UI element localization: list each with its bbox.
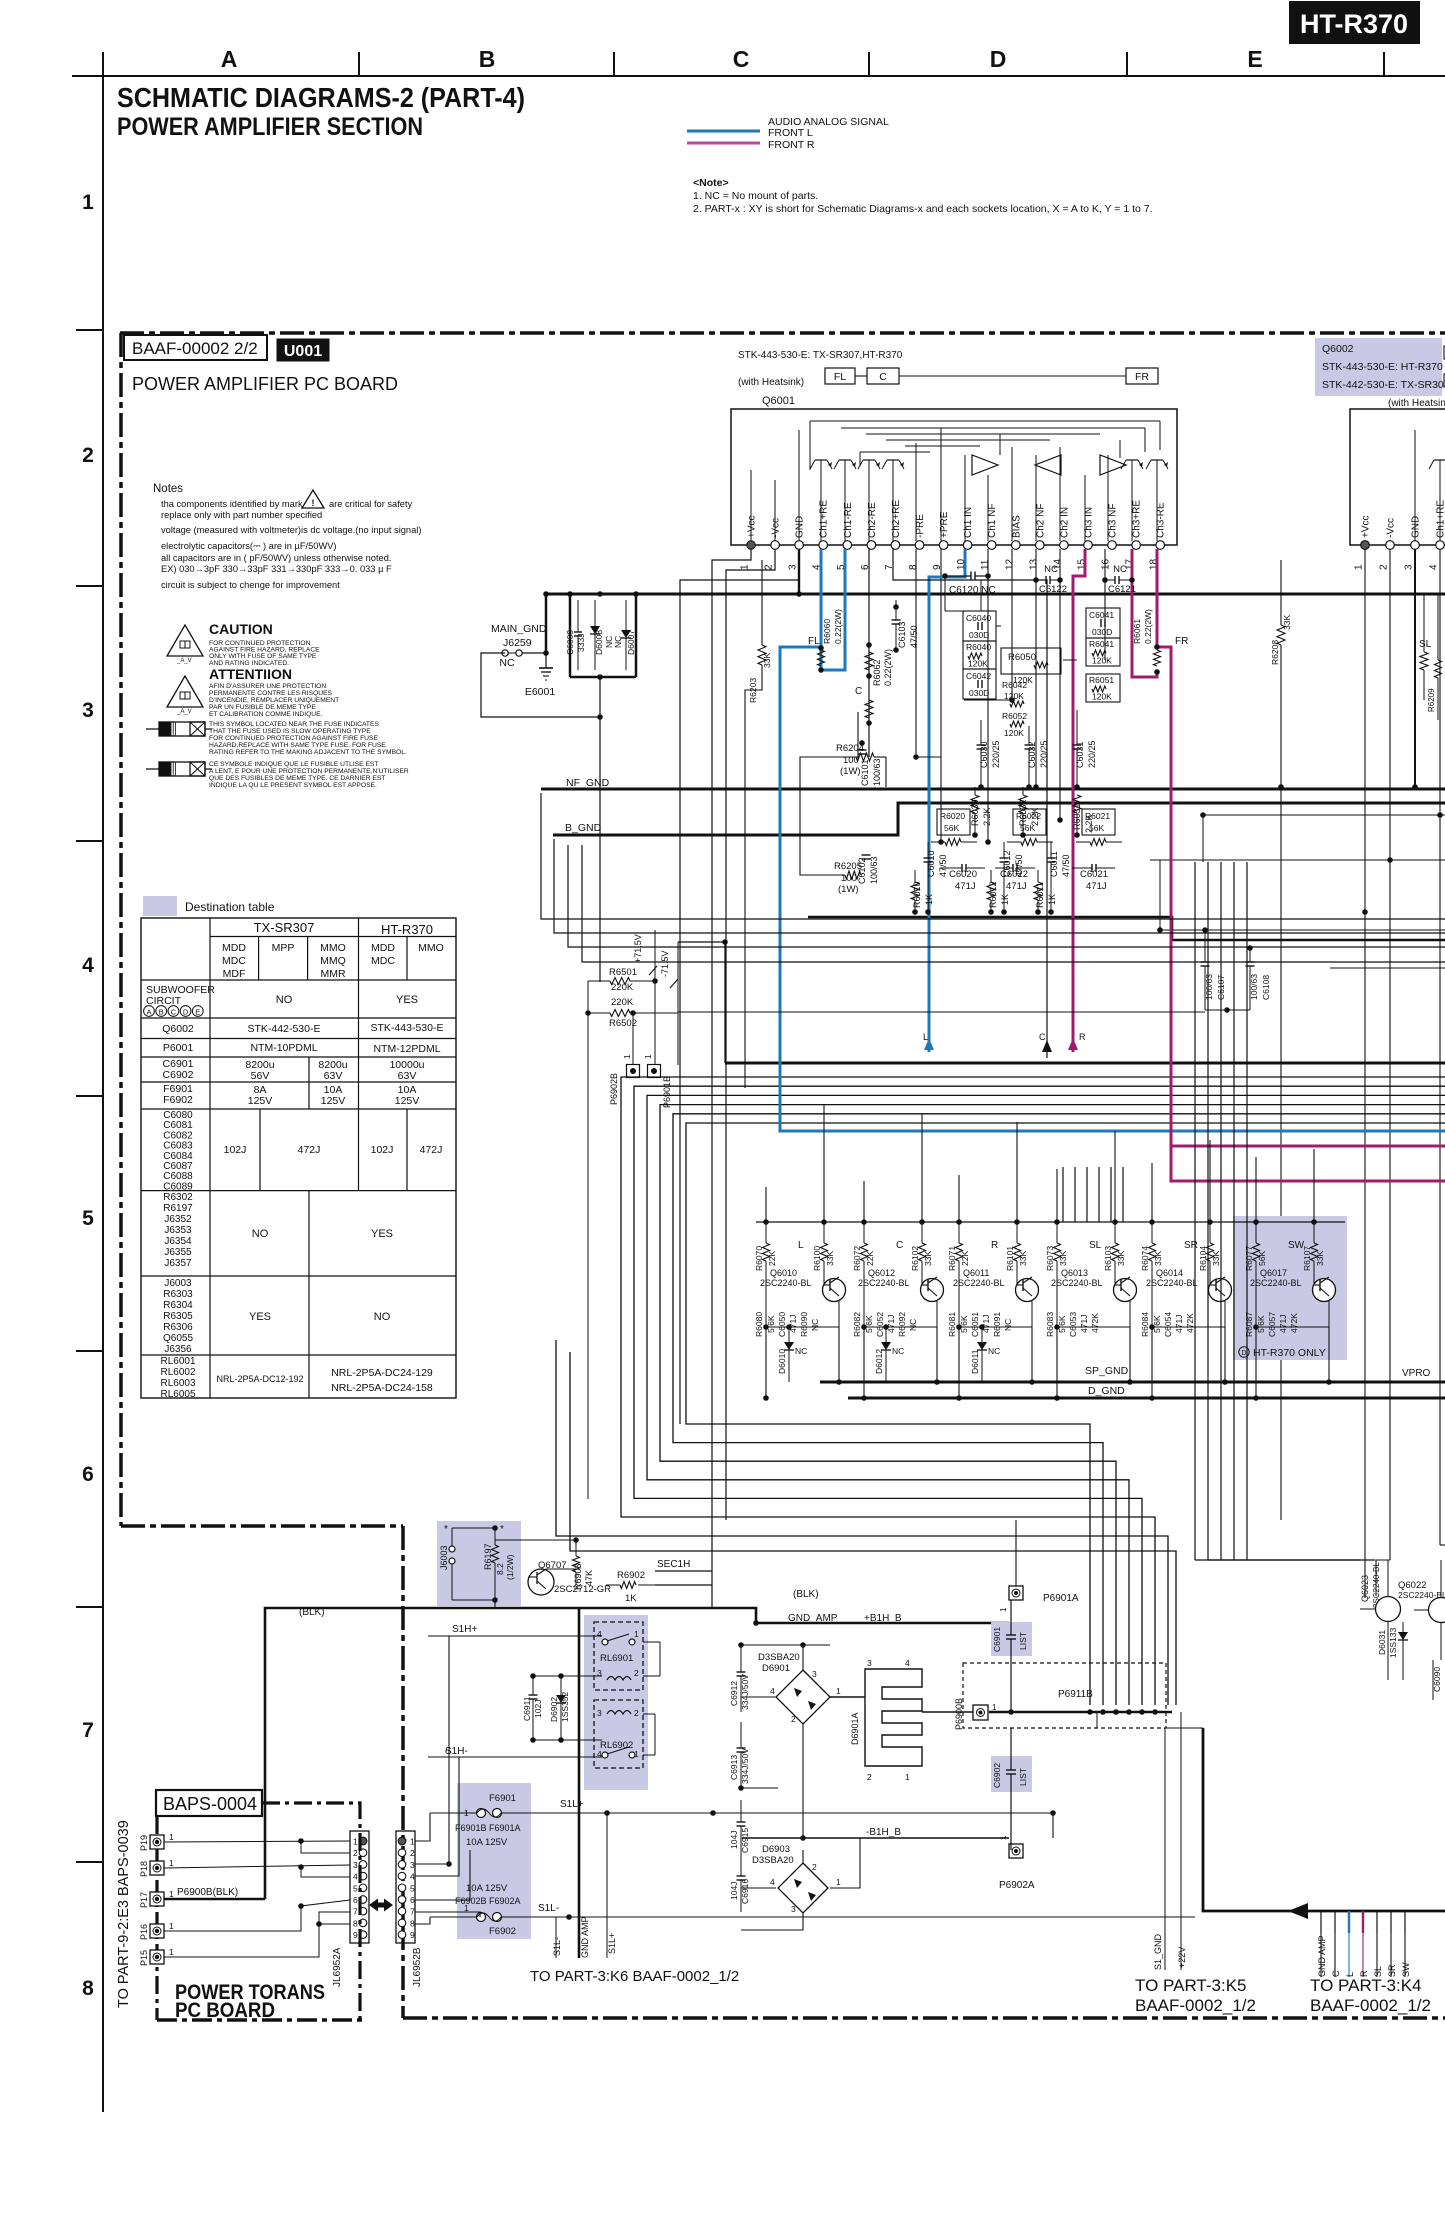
svg-text:(with Heatsink): (with Heatsink) bbox=[1388, 398, 1445, 409]
svg-text:3: 3 bbox=[812, 1669, 817, 1679]
svg-text:Q6002: Q6002 bbox=[1322, 343, 1354, 355]
svg-text:0.22(2W): 0.22(2W) bbox=[833, 609, 843, 644]
transistors Q6023 Q6022 bbox=[1360, 1560, 1445, 1700]
svg-text:C6021: C6021 bbox=[1080, 869, 1108, 880]
svg-text:SCHMATIC DIAGRAMS-2 (PART-4): SCHMATIC DIAGRAMS-2 (PART-4) bbox=[117, 82, 525, 113]
svg-text:PERMANENTE CONTRE LES RISQUES: PERMANENTE CONTRE LES RISQUES bbox=[209, 690, 333, 697]
bus NF_GND bbox=[541, 777, 1445, 789]
svg-text:Q6055: Q6055 bbox=[163, 1333, 193, 1344]
board label BAAF-00002 2/2 bbox=[124, 335, 267, 360]
svg-text:56K: 56K bbox=[1089, 823, 1104, 833]
svg-text:NF_GND: NF_GND bbox=[566, 777, 610, 789]
svg-text:J6003: J6003 bbox=[439, 1545, 449, 1570]
svg-text:C6108: C6108 bbox=[1261, 975, 1271, 1000]
wires misc pin drops 2 bbox=[892, 549, 1443, 933]
svg-text:J6352: J6352 bbox=[164, 1214, 192, 1225]
svg-text:030D: 030D bbox=[1092, 627, 1112, 637]
svg-text:Ch3+RE: Ch3+RE bbox=[1132, 500, 1143, 538]
svg-text:1: 1 bbox=[836, 1877, 841, 1887]
label TO PART-3:K6 bbox=[530, 1968, 739, 1985]
op-amp IC Q6002 (partial) bbox=[1350, 409, 1445, 570]
svg-text:1: 1 bbox=[999, 1607, 1008, 1612]
svg-text:2: 2 bbox=[634, 1668, 639, 1678]
signal C path bbox=[855, 549, 1052, 1058]
svg-text:D_GND: D_GND bbox=[1088, 1385, 1125, 1397]
fuse slow-blow symbol 1 bbox=[146, 721, 407, 756]
svg-text:JL6952B: JL6952B bbox=[412, 1947, 423, 1987]
IC heatsink note left bbox=[738, 350, 903, 388]
svg-text:3: 3 bbox=[597, 1708, 602, 1718]
svg-text:B: B bbox=[479, 46, 496, 72]
svg-text:RL6902: RL6902 bbox=[600, 1740, 633, 1751]
svg-text:R: R bbox=[991, 1240, 998, 1251]
svg-text:FL: FL bbox=[808, 636, 820, 647]
svg-text:2: 2 bbox=[410, 1848, 415, 1858]
connectors P15-P19 bbox=[139, 1832, 174, 1966]
svg-text:1. NC = No mount of parts.: 1. NC = No mount of parts. bbox=[693, 190, 818, 202]
svg-text:P6901B: P6901B bbox=[662, 1076, 672, 1108]
svg-text:SW: SW bbox=[1401, 1962, 1411, 1977]
svg-text:P6902B: P6902B bbox=[609, 1073, 619, 1105]
svg-text:P16: P16 bbox=[139, 1924, 149, 1940]
svg-text:TO PART-9-2:E3 BAPS-0039: TO PART-9-2:E3 BAPS-0039 bbox=[116, 1820, 132, 2008]
svg-text:R6074: R6074 bbox=[1140, 1246, 1150, 1271]
svg-text:1: 1 bbox=[410, 1837, 415, 1847]
svg-text:33K: 33K bbox=[1116, 1251, 1126, 1266]
svg-text:CE SYMBOLE INDIQUE QUE LE FUSI: CE SYMBOLE INDIQUE QUE LE FUSIBLE UTLISE… bbox=[209, 761, 378, 768]
svg-text:NC: NC bbox=[988, 1346, 1000, 1356]
svg-text:56K: 56K bbox=[944, 823, 959, 833]
svg-text:R6080: R6080 bbox=[754, 1312, 764, 1337]
svg-text:7: 7 bbox=[410, 1907, 415, 1917]
column tick marks bbox=[359, 52, 1384, 76]
svg-text:F6901: F6901 bbox=[489, 1793, 516, 1804]
svg-text:1: 1 bbox=[644, 1054, 653, 1059]
component cluster R6501 R6502 and plugs bbox=[585, 930, 728, 1108]
model badge HT-R370 bbox=[1289, 1, 1420, 44]
svg-text:PAR UN FUSIBLE DE MEME TYPE: PAR UN FUSIBLE DE MEME TYPE bbox=[209, 704, 316, 711]
svg-text:220/25: 220/25 bbox=[991, 740, 1001, 768]
svg-text:13: 13 bbox=[1028, 558, 1039, 570]
svg-text:BIAS: BIAS bbox=[1011, 515, 1022, 538]
svg-text:2: 2 bbox=[791, 1714, 796, 1724]
svg-text:Ch2 NF: Ch2 NF bbox=[1035, 504, 1046, 538]
svg-text:472K: 472K bbox=[1289, 1313, 1299, 1333]
svg-text:F6901B F6901A: F6901B F6901A bbox=[455, 1823, 521, 1833]
svg-text:33K: 33K bbox=[1315, 1251, 1325, 1266]
svg-text:472J: 472J bbox=[298, 1144, 321, 1156]
svg-text:R6051: R6051 bbox=[1089, 675, 1114, 685]
svg-text:P18: P18 bbox=[139, 1861, 149, 1877]
highlight box J6003 R6197 bbox=[437, 1521, 521, 1606]
svg-text:P15: P15 bbox=[139, 1950, 149, 1966]
svg-text:D6010: D6010 bbox=[777, 1349, 787, 1374]
svg-text:-71.5V: -71.5V bbox=[660, 950, 670, 977]
svg-text:104J: 104J bbox=[729, 1831, 739, 1849]
signal FR magenta path bbox=[1068, 549, 1445, 1181]
svg-text:R6092: R6092 bbox=[897, 1312, 907, 1337]
svg-text:C6101: C6101 bbox=[860, 759, 870, 786]
svg-text:R6107: R6107 bbox=[1302, 1246, 1312, 1271]
connector box P6911B bbox=[963, 1663, 1172, 1728]
svg-text:NC: NC bbox=[1113, 564, 1127, 575]
svg-text:7: 7 bbox=[82, 1719, 94, 1742]
svg-text:S1L-: S1L- bbox=[552, 1937, 562, 1956]
label VPRO bbox=[1402, 1368, 1431, 1379]
svg-text:22K: 22K bbox=[960, 1251, 970, 1266]
power wiring around bridges bbox=[741, 1642, 973, 1930]
row labels 1-8 bbox=[82, 191, 94, 2000]
svg-text:L: L bbox=[923, 1032, 928, 1042]
svg-text:E: E bbox=[195, 1008, 200, 1017]
svg-text:C: C bbox=[879, 371, 887, 383]
relays RL6901 RL6902 bbox=[594, 1622, 643, 1768]
svg-text:Ch2 IN: Ch2 IN bbox=[1059, 507, 1070, 538]
svg-text:3: 3 bbox=[410, 1860, 415, 1870]
svg-text:C6902: C6902 bbox=[163, 1069, 194, 1081]
svg-text:9: 9 bbox=[353, 1930, 358, 1940]
svg-text:MMO: MMO bbox=[418, 942, 444, 954]
svg-text:120K: 120K bbox=[1004, 728, 1024, 738]
svg-text:D6031: D6031 bbox=[1377, 1630, 1387, 1655]
svg-text:3: 3 bbox=[82, 699, 94, 722]
svg-text:2SC2240-BL: 2SC2240-BL bbox=[760, 1278, 812, 1288]
svg-text:FRONT R: FRONT R bbox=[768, 139, 815, 151]
legend wire FRONT R bbox=[687, 139, 815, 151]
svg-text:R6060: R6060 bbox=[822, 619, 832, 644]
svg-text:F6902: F6902 bbox=[163, 1094, 193, 1106]
svg-text:-PRE: -PRE bbox=[915, 514, 926, 538]
svg-text:(with Heatsink): (with Heatsink) bbox=[738, 377, 804, 388]
svg-text:NTM-12PDML: NTM-12PDML bbox=[373, 1043, 440, 1055]
svg-text:5.6K: 5.6K bbox=[766, 1315, 776, 1333]
svg-text:+22V: +22V bbox=[1177, 1947, 1187, 1968]
svg-text:22K: 22K bbox=[865, 1251, 875, 1266]
svg-text:33K: 33K bbox=[923, 1251, 933, 1266]
svg-text:THIS SYMBOL LOCATED NEAR THE F: THIS SYMBOL LOCATED NEAR THE FUSE INDICA… bbox=[209, 721, 379, 728]
svg-text:C6913: C6913 bbox=[729, 1755, 739, 1780]
svg-text:1: 1 bbox=[992, 1703, 997, 1712]
wires Q6001 pin drops bbox=[799, 549, 1108, 842]
svg-text:R6020: R6020 bbox=[940, 811, 965, 821]
svg-text:HAZARD,REPLACE WITH SAME TYPE: HAZARD,REPLACE WITH SAME TYPE FUSE. FOR … bbox=[209, 742, 386, 749]
svg-text:C: C bbox=[896, 1240, 903, 1251]
svg-text:R: R bbox=[1079, 1032, 1086, 1042]
svg-text:16: 16 bbox=[1101, 558, 1112, 570]
svg-text:_A_V: _A_V bbox=[176, 658, 192, 664]
svg-text:NRL-2P5A-DC24-158: NRL-2P5A-DC24-158 bbox=[331, 1382, 433, 1394]
svg-text:R6302: R6302 bbox=[163, 1192, 193, 1203]
bus +Vcc rail bbox=[547, 591, 1445, 597]
svg-text:STK-443-530-E: TX-SR307,HT-R37: STK-443-530-E: TX-SR307,HT-R370 bbox=[738, 350, 903, 361]
svg-text:Ch3 NF: Ch3 NF bbox=[1108, 504, 1119, 538]
capacitor C6902 bbox=[991, 1728, 1032, 1850]
svg-text:D'INCENDIE, REMPLACER UNIQUEME: D'INCENDIE, REMPLACER UNIQUEMENT bbox=[209, 697, 339, 704]
svg-text:2SC2240-BL: 2SC2240-BL bbox=[1051, 1278, 1103, 1288]
svg-text:220K: 220K bbox=[611, 982, 634, 993]
svg-text:E6001: E6001 bbox=[525, 686, 556, 698]
svg-text:120K: 120K bbox=[968, 659, 988, 669]
svg-text:S1H-: S1H- bbox=[445, 1746, 468, 1757]
svg-text:4: 4 bbox=[770, 1686, 775, 1696]
svg-text:J6354: J6354 bbox=[164, 1236, 192, 1247]
svg-text:R6103: R6103 bbox=[1103, 1246, 1113, 1271]
heavy wire to arrow bbox=[1097, 1712, 1445, 1911]
svg-text:2: 2 bbox=[764, 564, 775, 570]
svg-text:Q6012: Q6012 bbox=[868, 1268, 895, 1278]
wires right-side horizontals bbox=[1150, 815, 1445, 968]
component cluster R6020 R6022 R6021 network bbox=[911, 809, 1122, 915]
svg-text:22K: 22K bbox=[767, 1251, 777, 1266]
svg-text:NRL-2P5A-DC24-129: NRL-2P5A-DC24-129 bbox=[331, 1367, 433, 1379]
svg-text:replace only with part number: replace only with part number specified bbox=[161, 510, 322, 520]
svg-text:R6100: R6100 bbox=[812, 1246, 822, 1271]
svg-text:1: 1 bbox=[169, 1858, 174, 1868]
svg-text:333J: 333J bbox=[576, 634, 586, 652]
svg-text:S1H+: S1H+ bbox=[452, 1624, 477, 1635]
svg-text:RL6001: RL6001 bbox=[160, 1356, 195, 1367]
svg-text:3: 3 bbox=[788, 564, 799, 570]
svg-text:3: 3 bbox=[791, 1904, 796, 1914]
svg-text:R6197: R6197 bbox=[483, 1543, 493, 1570]
svg-text:5.6K: 5.6K bbox=[864, 1315, 874, 1333]
svg-text:R6902: R6902 bbox=[617, 1570, 645, 1581]
svg-text:2: 2 bbox=[82, 444, 94, 467]
svg-text:2: 2 bbox=[1379, 564, 1390, 570]
svg-text:33K: 33K bbox=[1153, 1251, 1163, 1266]
relay drive wiring bbox=[428, 1624, 660, 1757]
svg-text:220/25: 220/25 bbox=[1087, 740, 1097, 768]
svg-text:P6001: P6001 bbox=[163, 1042, 194, 1054]
svg-text:S1L+: S1L+ bbox=[607, 1933, 617, 1954]
svg-text:C6120 NC: C6120 NC bbox=[949, 585, 996, 596]
svg-text:MDC: MDC bbox=[371, 955, 395, 967]
svg-text:STK-443-530-E: STK-443-530-E bbox=[371, 1022, 444, 1034]
svg-text:D6007: D6007 bbox=[626, 630, 636, 655]
svg-text:R6041: R6041 bbox=[1089, 639, 1114, 649]
svg-text:TO PART-3:K6 BAAF-0002_1/2: TO PART-3:K6 BAAF-0002_1/2 bbox=[530, 1968, 739, 1985]
svg-text:0.22(2W): 0.22(2W) bbox=[1143, 609, 1153, 644]
svg-text:NO: NO bbox=[374, 1311, 391, 1323]
svg-text:R6082: R6082 bbox=[852, 1312, 862, 1337]
bus D_GND bbox=[848, 1385, 1445, 1398]
svg-text:4: 4 bbox=[353, 1872, 358, 1882]
svg-text:MMO: MMO bbox=[320, 942, 346, 954]
svg-text:D6008: D6008 bbox=[594, 630, 604, 655]
svg-text:8: 8 bbox=[410, 1918, 415, 1928]
label S1_GND +22V bbox=[1153, 1712, 1187, 1970]
svg-text:*: * bbox=[444, 1524, 448, 1535]
svg-text:J6003: J6003 bbox=[164, 1278, 192, 1289]
svg-text:FR: FR bbox=[1135, 371, 1149, 383]
svg-text:3: 3 bbox=[1404, 564, 1415, 570]
svg-text:11: 11 bbox=[980, 559, 991, 570]
svg-text:QUE DES FUSIBLES DE MEME TYPE.: QUE DES FUSIBLES DE MEME TYPE. CE DARNIE… bbox=[209, 775, 385, 782]
svg-text:1: 1 bbox=[1354, 564, 1365, 570]
capacitor C6915 bbox=[729, 1800, 750, 1858]
svg-text:F6902: F6902 bbox=[489, 1926, 516, 1937]
svg-text:C6122: C6122 bbox=[1039, 584, 1067, 595]
svg-text:AFIN D'ASSURER UNE PROTECTION: AFIN D'ASSURER UNE PROTECTION bbox=[209, 683, 326, 690]
svg-text:1: 1 bbox=[353, 1837, 358, 1847]
svg-text:are critical for safety: are critical for safety bbox=[329, 499, 413, 509]
svg-text:D6011: D6011 bbox=[970, 1349, 980, 1374]
svg-text:5: 5 bbox=[82, 1207, 94, 1230]
svg-text:GND: GND bbox=[1411, 516, 1422, 538]
svg-text:STK-443-530-E: HT-R370: STK-443-530-E: HT-R370 bbox=[1322, 361, 1443, 373]
svg-text:R6304: R6304 bbox=[163, 1300, 193, 1311]
svg-text:NO: NO bbox=[276, 994, 293, 1006]
bridge rectifier D6901 bbox=[758, 1652, 841, 1724]
svg-text:5.6K: 5.6K bbox=[1057, 1315, 1067, 1333]
svg-text:R6209: R6209 bbox=[1427, 688, 1436, 712]
svg-text:33K: 33K bbox=[1058, 1251, 1068, 1266]
wire BLK heavy bbox=[265, 1589, 819, 1899]
svg-text:100/63: 100/63 bbox=[872, 758, 882, 786]
svg-text:TO PART-3:K5: TO PART-3:K5 bbox=[1135, 1976, 1247, 1995]
svg-text:R6091: R6091 bbox=[992, 1312, 1002, 1337]
svg-text:4: 4 bbox=[410, 1872, 415, 1882]
wires Q6002 pin drops bbox=[1281, 549, 1445, 1598]
svg-text:(1/2W): (1/2W) bbox=[505, 1554, 515, 1580]
svg-text:RL6005: RL6005 bbox=[160, 1389, 195, 1400]
svg-text:56K: 56K bbox=[1020, 823, 1035, 833]
legend wire FRONT L bbox=[687, 127, 813, 139]
svg-text:C6057: C6057 bbox=[1267, 1312, 1277, 1337]
svg-text:R6073: R6073 bbox=[1045, 1246, 1055, 1271]
svg-text:SP_GND: SP_GND bbox=[1085, 1365, 1129, 1377]
svg-text:125V: 125V bbox=[248, 1095, 273, 1107]
svg-text:P6900B(BLK): P6900B(BLK) bbox=[177, 1887, 238, 1898]
row tick marks bbox=[76, 330, 103, 1862]
svg-text:120K: 120K bbox=[1092, 692, 1112, 702]
svg-text:4: 4 bbox=[597, 1629, 602, 1639]
svg-text:NC: NC bbox=[499, 657, 515, 669]
svg-text:Q6014: Q6014 bbox=[1156, 1268, 1183, 1278]
mating arrow bbox=[369, 1899, 393, 1912]
svg-text:1: 1 bbox=[999, 1835, 1008, 1840]
svg-text:RL6901: RL6901 bbox=[600, 1653, 633, 1664]
svg-text:5.6K: 5.6K bbox=[959, 1315, 969, 1333]
svg-text:RL6003: RL6003 bbox=[160, 1378, 195, 1389]
svg-text:R6101: R6101 bbox=[1005, 1246, 1015, 1271]
svg-text:CAUTION: CAUTION bbox=[209, 621, 273, 637]
svg-text:C6042: C6042 bbox=[966, 671, 991, 681]
svg-text:*: * bbox=[500, 1524, 504, 1535]
svg-text:P6902A: P6902A bbox=[999, 1880, 1035, 1891]
bridge rectifier D6903 bbox=[752, 1844, 841, 1914]
svg-text:5: 5 bbox=[410, 1883, 415, 1893]
svg-text:030D: 030D bbox=[969, 630, 989, 640]
svg-text:Ch1 NF: Ch1 NF bbox=[987, 504, 998, 538]
svg-text:R6050: R6050 bbox=[1008, 652, 1036, 663]
svg-text:471J: 471J bbox=[955, 881, 976, 892]
svg-text:NRL-2P5A-DC12-192: NRL-2P5A-DC12-192 bbox=[216, 1374, 303, 1384]
svg-text:C6901: C6901 bbox=[992, 1627, 1002, 1652]
svg-text:R6061: R6061 bbox=[1132, 619, 1142, 644]
svg-text:GND: GND bbox=[795, 516, 806, 538]
svg-text:63V: 63V bbox=[398, 1070, 417, 1082]
svg-text:B_GND: B_GND bbox=[565, 822, 602, 834]
svg-text:MPP: MPP bbox=[272, 942, 295, 954]
svg-text:47/50: 47/50 bbox=[1061, 854, 1071, 877]
svg-text:47K: 47K bbox=[584, 1570, 594, 1586]
svg-text:C: C bbox=[1331, 1970, 1341, 1977]
svg-text:471J: 471J bbox=[1079, 1315, 1089, 1333]
wire interconnects bbox=[712, 576, 1077, 1608]
svg-text:FOR CONTINUED PROTECTION AGAIN: FOR CONTINUED PROTECTION AGAINST FIRE FU… bbox=[209, 735, 378, 742]
label P6900B(BLK) bbox=[177, 1887, 238, 1898]
svg-text:2: 2 bbox=[353, 1848, 358, 1858]
svg-text:3: 3 bbox=[867, 1658, 872, 1668]
fuse slow-blow symbol 2 bbox=[146, 761, 409, 789]
svg-text:D6901: D6901 bbox=[762, 1663, 790, 1674]
svg-text:2: 2 bbox=[634, 1708, 639, 1718]
svg-text:6: 6 bbox=[82, 1463, 94, 1486]
svg-text:R6040: R6040 bbox=[966, 642, 991, 652]
svg-text:1: 1 bbox=[740, 564, 751, 570]
speaker wire bundle bbox=[1063, 1167, 1123, 1222]
svg-text:A: A bbox=[221, 46, 238, 72]
svg-text:8: 8 bbox=[82, 1977, 94, 2000]
svg-text:R6062: R6062 bbox=[872, 659, 882, 686]
svg-text:1: 1 bbox=[836, 1686, 841, 1696]
svg-text:TO PART-3:K4: TO PART-3:K4 bbox=[1310, 1976, 1422, 1995]
wire staircase mid band bbox=[541, 793, 1445, 962]
svg-text:S1_GND: S1_GND bbox=[1153, 1933, 1163, 1970]
svg-text:102J: 102J bbox=[371, 1144, 394, 1156]
svg-text:R6084: R6084 bbox=[1140, 1312, 1150, 1337]
svg-text:JL6952A: JL6952A bbox=[332, 1947, 343, 1987]
svg-text:R6070: R6070 bbox=[754, 1246, 764, 1271]
plug P6900B bbox=[954, 1698, 997, 1730]
svg-text:104J: 104J bbox=[729, 1882, 739, 1900]
svg-text:NTM-10PDML: NTM-10PDML bbox=[250, 1042, 317, 1054]
svg-text:63V: 63V bbox=[324, 1070, 343, 1082]
svg-text:030D: 030D bbox=[969, 688, 989, 698]
svg-text:J6353: J6353 bbox=[164, 1225, 192, 1236]
svg-text:SR: SR bbox=[1387, 1964, 1397, 1977]
svg-text:102J: 102J bbox=[224, 1144, 247, 1156]
svg-text:1: 1 bbox=[634, 1629, 639, 1639]
svg-text:100/63: 100/63 bbox=[869, 856, 879, 884]
resistor cluster right edge bbox=[1427, 594, 1442, 720]
svg-text:ET CALIBRATION COMME INDIQUE.: ET CALIBRATION COMME INDIQUE. bbox=[209, 711, 323, 718]
svg-text:SR: SR bbox=[1184, 1240, 1198, 1251]
svg-text:YES: YES bbox=[396, 994, 418, 1006]
attention block bbox=[167, 666, 339, 718]
svg-text:C6121: C6121 bbox=[1108, 584, 1136, 595]
svg-text:5: 5 bbox=[353, 1883, 358, 1893]
svg-text:1K: 1K bbox=[1047, 894, 1057, 905]
svg-text:YES: YES bbox=[249, 1311, 271, 1323]
svg-text:471J: 471J bbox=[1006, 881, 1027, 892]
svg-text:RL6002: RL6002 bbox=[160, 1367, 195, 1378]
wire nest mid-right bbox=[556, 1013, 1445, 1705]
svg-text:471J: 471J bbox=[1278, 1315, 1288, 1333]
svg-text:circuit is subject to chenge f: circuit is subject to chenge for improve… bbox=[161, 580, 340, 590]
svg-text:R6102: R6102 bbox=[910, 1246, 920, 1271]
svg-text:BAAF-0002_1/2: BAAF-0002_1/2 bbox=[1135, 1996, 1256, 2015]
svg-text:D6012: D6012 bbox=[874, 1349, 884, 1374]
svg-text:HT-R370: HT-R370 bbox=[1300, 9, 1408, 39]
svg-text:1K: 1K bbox=[625, 1593, 637, 1604]
svg-text:33K: 33K bbox=[825, 1251, 835, 1266]
svg-text:R6104: R6104 bbox=[1198, 1246, 1208, 1271]
svg-text:(BLK): (BLK) bbox=[793, 1589, 819, 1600]
board label BAPS-0004 bbox=[156, 1790, 262, 1816]
svg-text:0.22(2W): 0.22(2W) bbox=[883, 649, 893, 686]
